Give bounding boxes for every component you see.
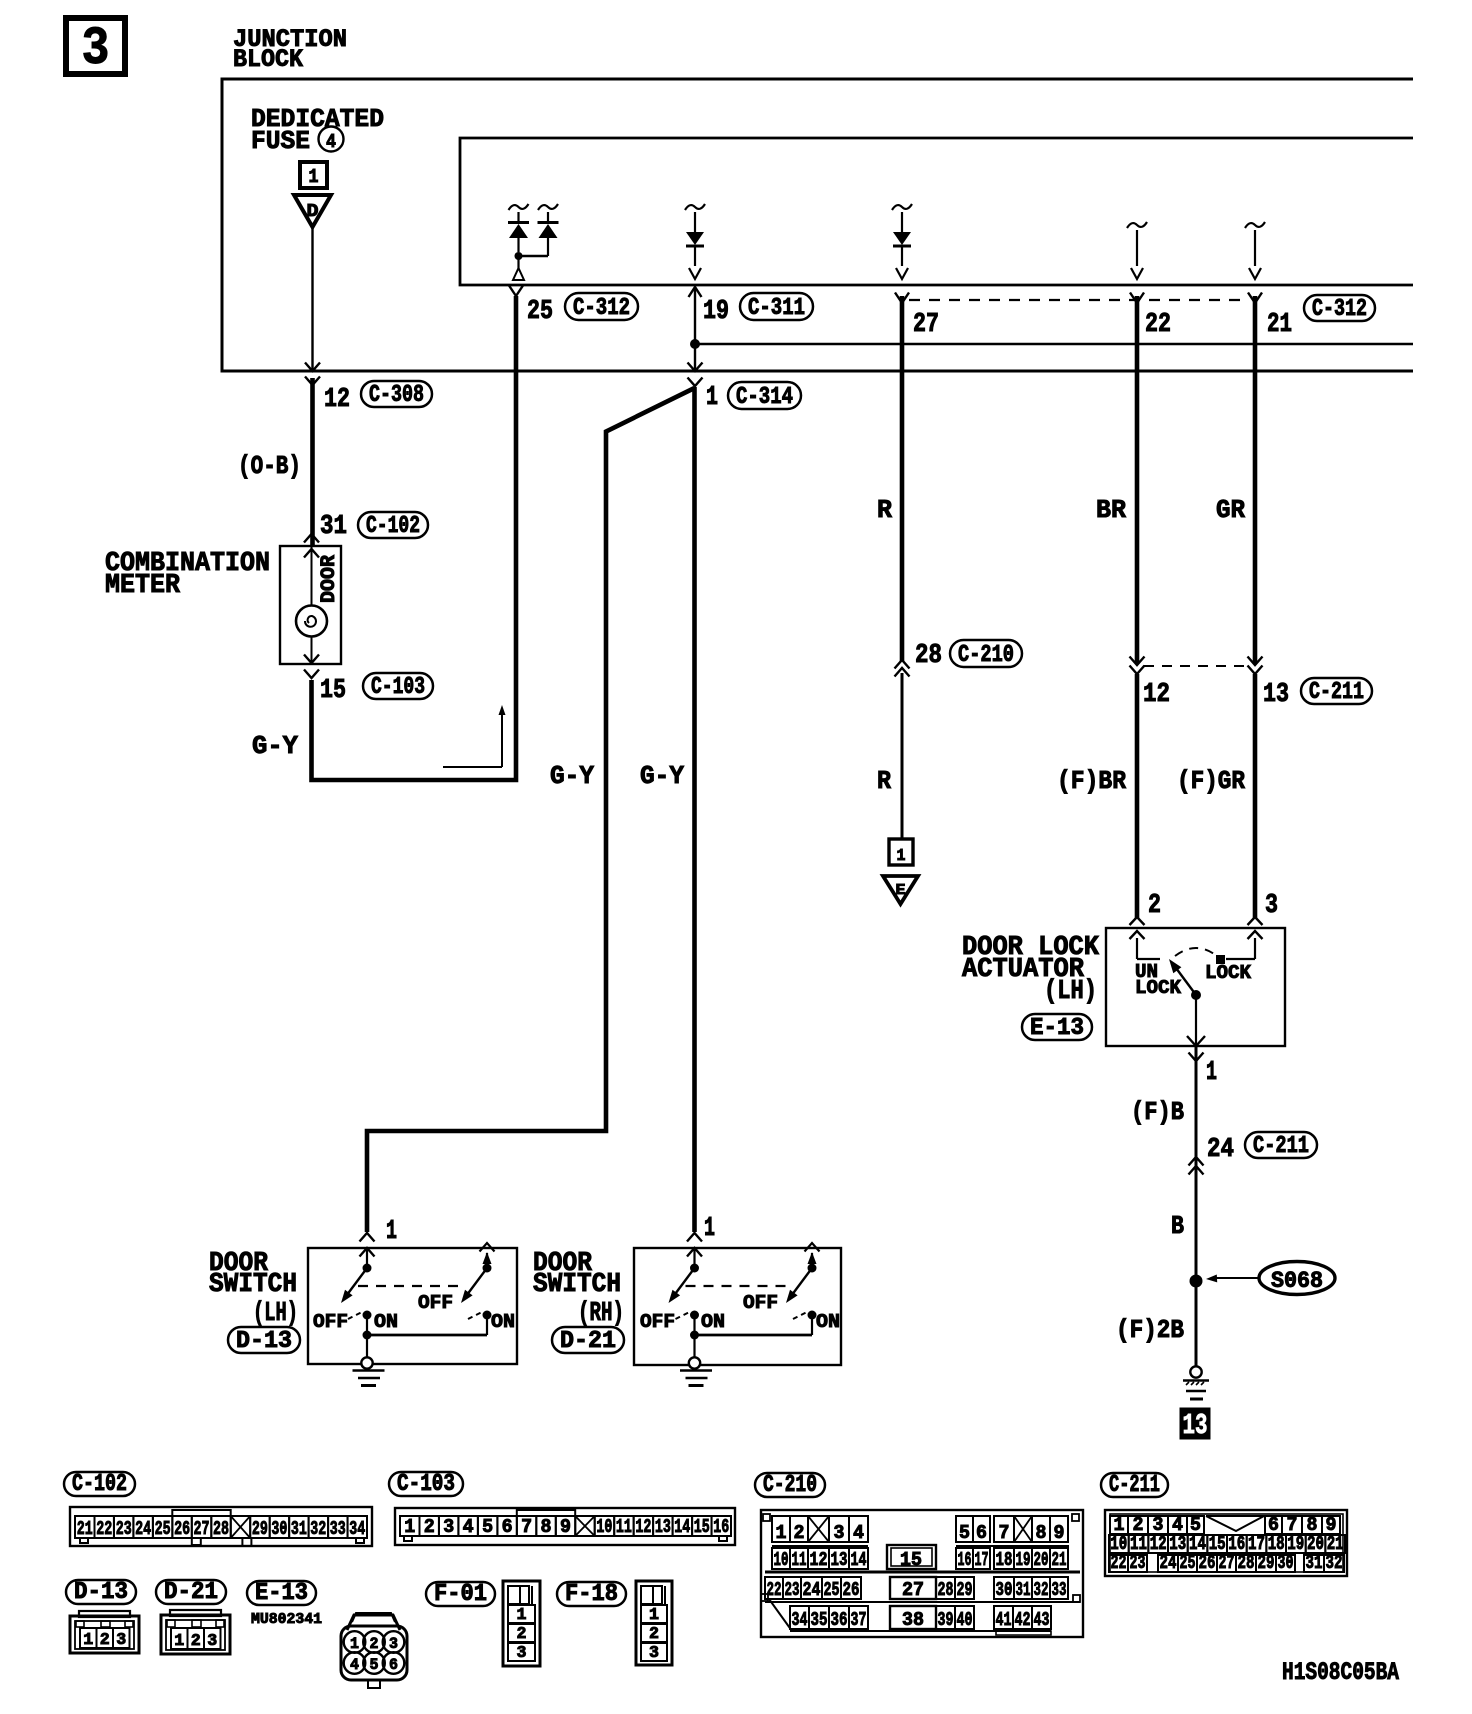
svg-text:2: 2: [191, 1632, 201, 1651]
svg-text:25: 25: [824, 1579, 840, 1601]
svg-text:16: 16: [713, 1516, 729, 1538]
svg-text:F-18: F-18: [565, 1581, 618, 1608]
svg-text:43: 43: [1034, 1609, 1050, 1631]
door switch LH pin 1 crossing chevrons: [360, 1233, 375, 1242]
svg-text:5: 5: [370, 1656, 379, 1674]
dashed link 12-13: [1144, 665, 1248, 667]
connector label C-211: [1101, 1473, 1168, 1497]
svg-text:G-Y: G-Y: [550, 761, 594, 791]
svg-text:E: E: [896, 882, 906, 899]
svg-text:H1S08C05BA: H1S08C05BA: [1282, 1658, 1399, 1687]
door switch RH pin 1 crossing chevrons: [687, 1233, 702, 1242]
svg-text:13: 13: [1183, 1409, 1208, 1442]
svg-text:32: 32: [310, 1518, 326, 1540]
combination meter box: [280, 546, 341, 664]
svg-text:28: 28: [1238, 1552, 1255, 1574]
svg-text:ON: ON: [374, 1311, 398, 1333]
connector label C-308: [361, 381, 432, 407]
svg-text:12: 12: [1143, 680, 1170, 710]
wire fuse to pin 12: [311, 227, 313, 371]
svg-text:3: 3: [389, 1635, 398, 1653]
svg-text:42: 42: [1015, 1609, 1031, 1631]
page number box 3: [66, 18, 125, 74]
svg-text:1: 1: [706, 383, 718, 413]
svg-text:10: 10: [774, 1549, 789, 1571]
svg-text:1: 1: [350, 1635, 359, 1653]
svg-text:25: 25: [527, 297, 553, 327]
svg-text:R: R: [877, 766, 891, 796]
svg-text:11: 11: [792, 1549, 807, 1571]
svg-text:MU802341: MU802341: [251, 1611, 322, 1628]
pin 27 fork: [895, 293, 909, 304]
svg-text:5: 5: [482, 1516, 493, 1538]
svg-text:13: 13: [1263, 680, 1289, 710]
svg-text:18: 18: [996, 1549, 1013, 1571]
svg-text:ON: ON: [816, 1311, 840, 1333]
svg-text:3: 3: [443, 1516, 454, 1538]
svg-text:36: 36: [831, 1609, 848, 1631]
svg-text:5: 5: [959, 1522, 970, 1544]
svg-text:1: 1: [517, 1606, 527, 1625]
svg-text:2: 2: [1148, 891, 1161, 921]
svg-text:41: 41: [996, 1609, 1012, 1631]
pin 24 crossing chevrons: [1189, 1157, 1204, 1166]
connector label C-102 at meter: [358, 512, 428, 538]
wire G-Y to door switch RH: [692, 387, 697, 1232]
svg-text:7: 7: [521, 1516, 532, 1538]
svg-text:C-211: C-211: [1253, 1133, 1309, 1160]
svg-text:21: 21: [77, 1518, 93, 1540]
svg-text:27: 27: [913, 310, 939, 340]
svg-text:19: 19: [703, 297, 729, 327]
diode D4: [892, 204, 912, 210]
svg-text:4: 4: [326, 131, 336, 153]
door lock actuator box: [1106, 928, 1285, 1046]
open arrow terminal of D4: [896, 268, 908, 279]
svg-text:3: 3: [834, 1522, 845, 1544]
svg-text:25: 25: [155, 1518, 171, 1540]
actuator switch lever: [1176, 968, 1196, 995]
connector C-211 pinout: [1105, 1510, 1347, 1576]
wire stub pin 21: [1245, 222, 1265, 228]
svg-text:28: 28: [213, 1518, 229, 1540]
svg-text:3: 3: [517, 1644, 527, 1663]
svg-text:31: 31: [1016, 1579, 1031, 1601]
connector label C-210 at wire R: [950, 640, 1022, 667]
svg-text:15: 15: [694, 1516, 710, 1538]
door switch LH contacts: [366, 1250, 368, 1268]
svg-text:METER: METER: [105, 571, 181, 601]
svg-text:33: 33: [1052, 1579, 1067, 1601]
connector label C-103: [389, 1472, 463, 1496]
svg-text:BLOCK: BLOCK: [233, 45, 303, 74]
svg-text:R: R: [877, 495, 892, 525]
svg-text:1: 1: [309, 166, 319, 188]
svg-text:1: 1: [83, 1631, 93, 1650]
svg-text:22: 22: [1111, 1552, 1127, 1574]
svg-text:D-13: D-13: [74, 1579, 128, 1606]
svg-text:33: 33: [330, 1518, 346, 1540]
svg-text:26: 26: [843, 1579, 860, 1601]
actuator output wire: [1195, 995, 1197, 1046]
circled 4: [319, 127, 344, 152]
junction block outline: [222, 79, 1413, 371]
wire from node to right edge: [695, 343, 1413, 345]
connector label D-21 at switch: [552, 1327, 624, 1353]
junction block inner dark box: [460, 138, 1413, 285]
svg-text:25: 25: [1180, 1552, 1196, 1574]
pin 15 crossing chevrons: [304, 655, 319, 664]
svg-text:31: 31: [1306, 1552, 1323, 1574]
door switch RH contacts: [693, 1250, 695, 1268]
fuse terminal box 1: [300, 162, 327, 188]
svg-text:32: 32: [1326, 1552, 1343, 1574]
wire G-Y from meter joining pin 25 wire: [312, 296, 517, 780]
pin 22 fork: [1130, 293, 1144, 304]
svg-text:LOCK: LOCK: [1205, 962, 1252, 984]
svg-text:8: 8: [1036, 1522, 1047, 1544]
svg-text:15: 15: [320, 676, 346, 706]
svg-text:SWITCH: SWITCH: [209, 1270, 297, 1300]
svg-text:OFF: OFF: [313, 1311, 348, 1333]
svg-text:D-21: D-21: [560, 1328, 616, 1355]
connector label C-210: [755, 1473, 825, 1497]
svg-text:3: 3: [116, 1631, 126, 1650]
diode D2 (right of pair): [538, 204, 558, 210]
connector D-21 pinout: [161, 1615, 230, 1654]
svg-text:2: 2: [649, 1625, 659, 1644]
svg-text:30: 30: [1278, 1552, 1294, 1574]
svg-text:4: 4: [350, 1656, 359, 1674]
svg-text:D-13: D-13: [236, 1328, 292, 1355]
svg-text:C-312: C-312: [1312, 296, 1367, 323]
wire BR upper: [1135, 296, 1140, 664]
flow arrow symbol: [443, 766, 502, 768]
svg-text:27: 27: [902, 1579, 924, 1601]
svg-text:OFF: OFF: [743, 1292, 778, 1314]
svg-text:4: 4: [463, 1516, 474, 1538]
meter internal wire top: [311, 546, 313, 606]
connector C-210 pinout: [761, 1510, 1083, 1637]
svg-text:OFF: OFF: [640, 1311, 675, 1333]
splice node dot: [1190, 1275, 1203, 1288]
svg-text:11: 11: [616, 1516, 632, 1538]
pin 13 C-211 crossing chevrons: [1248, 657, 1263, 666]
svg-text:1: 1: [776, 1522, 787, 1544]
ground symbol E triangle: [883, 876, 918, 904]
wire (F)B: [1195, 1046, 1198, 1366]
svg-text:14: 14: [851, 1549, 867, 1571]
svg-text:23: 23: [1130, 1552, 1146, 1574]
svg-text:6: 6: [389, 1656, 398, 1674]
svg-text:E-13: E-13: [1030, 1015, 1084, 1042]
pin 12 crossing chevrons: [305, 363, 320, 372]
svg-text:3: 3: [649, 1644, 659, 1663]
svg-text:12: 12: [810, 1549, 828, 1571]
node junction dot on pin19 wire: [690, 339, 700, 349]
splice label S068: [1259, 1262, 1335, 1295]
svg-text:C-314: C-314: [736, 384, 793, 411]
svg-text:ON: ON: [701, 1311, 725, 1333]
diode D3: [685, 204, 705, 210]
svg-text:F-01: F-01: [434, 1581, 487, 1608]
svg-text:22: 22: [1145, 310, 1171, 340]
actuator dashed arc: [1175, 948, 1217, 956]
ground symbol lower right: [1190, 1366, 1201, 1377]
actuator pin 1 crossing chevrons: [1187, 1036, 1205, 1046]
svg-text:40: 40: [957, 1609, 973, 1631]
door switch LH box: [308, 1248, 517, 1364]
connector C-103 pinout: [395, 1508, 735, 1545]
svg-text:LOCK: LOCK: [1135, 977, 1182, 999]
connector F-01 pinout: [503, 1581, 540, 1666]
svg-text:27: 27: [194, 1518, 210, 1540]
svg-text:C-312: C-312: [573, 295, 630, 322]
svg-text:20: 20: [1034, 1549, 1049, 1571]
svg-text:(RH): (RH): [578, 1299, 624, 1329]
svg-text:28: 28: [915, 641, 942, 671]
pin 25 fork: [509, 286, 523, 297]
svg-text:26: 26: [174, 1518, 190, 1540]
pin 31 crossing chevrons: [304, 534, 319, 543]
wire R upper: [900, 296, 905, 661]
svg-text:23: 23: [116, 1518, 132, 1540]
svg-text:FUSE: FUSE: [251, 126, 310, 156]
actuator pin 2 crossing chevrons: [1130, 917, 1145, 925]
diode D1 (left pair): [509, 204, 529, 210]
actuator unlock contact: [1136, 938, 1138, 959]
svg-text:2: 2: [100, 1631, 110, 1650]
open triangle terminal of diode pair: [513, 268, 524, 280]
svg-text:1: 1: [1206, 1058, 1217, 1088]
connector label D-21: [156, 1580, 226, 1604]
svg-text:7: 7: [999, 1522, 1010, 1544]
svg-text:26: 26: [1199, 1552, 1216, 1574]
connector label C-314: [728, 382, 801, 409]
wire stub pin 22: [1127, 222, 1147, 228]
svg-text:1: 1: [174, 1632, 184, 1651]
open arrow terminal of D3: [689, 268, 701, 279]
svg-text:10: 10: [596, 1516, 612, 1538]
pin 19 arrow: [689, 287, 702, 297]
svg-text:1: 1: [386, 1217, 397, 1247]
open arrow terminal pin 22 stub: [1131, 268, 1143, 279]
svg-text:C-211: C-211: [1309, 679, 1364, 706]
svg-text:31: 31: [291, 1518, 307, 1540]
svg-text:24: 24: [1207, 1135, 1234, 1165]
svg-text:C-103: C-103: [371, 674, 425, 701]
svg-text:(F)GR: (F)GR: [1177, 766, 1245, 796]
svg-text:29: 29: [252, 1518, 268, 1540]
svg-text:C-211: C-211: [1109, 1472, 1160, 1499]
actuator pin 3 crossing chevrons: [1248, 917, 1263, 925]
svg-text:16: 16: [958, 1549, 972, 1571]
svg-text:OFF: OFF: [418, 1292, 453, 1314]
pin 1 C-314 crossing chevrons: [688, 363, 703, 372]
svg-text:30: 30: [271, 1518, 287, 1540]
svg-text:B: B: [1171, 1211, 1184, 1241]
wire (F)GR: [1253, 674, 1258, 918]
dashed link pins 27-22-21: [909, 299, 1248, 301]
svg-text:21: 21: [1052, 1549, 1067, 1571]
svg-text:2: 2: [517, 1625, 527, 1644]
svg-text:G-Y: G-Y: [252, 731, 298, 761]
svg-text:E-13: E-13: [255, 1580, 308, 1607]
svg-text:(F)2B: (F)2B: [1116, 1315, 1184, 1345]
svg-text:32: 32: [1034, 1579, 1049, 1601]
svg-text:31: 31: [320, 512, 347, 542]
svg-text:1: 1: [897, 847, 906, 866]
svg-text:35: 35: [811, 1609, 828, 1631]
door lamp: [296, 606, 327, 637]
connector label D-13 at switch: [228, 1327, 300, 1353]
svg-text:24: 24: [1160, 1552, 1177, 1574]
svg-text:13: 13: [831, 1549, 848, 1571]
svg-text:D: D: [307, 202, 319, 222]
svg-text:38: 38: [902, 1609, 924, 1631]
connector F-18 pinout: [636, 1581, 672, 1665]
svg-text:C-308: C-308: [369, 382, 424, 409]
connector label C-103 at meter: [363, 673, 433, 699]
svg-text:2: 2: [424, 1516, 435, 1538]
ground terminal box 1: [889, 839, 913, 865]
pin 12 C-211 crossing chevrons: [1130, 657, 1145, 666]
svg-text:34: 34: [349, 1518, 365, 1540]
fuse symbol D triangle: [294, 195, 331, 227]
svg-text:27: 27: [1219, 1552, 1235, 1574]
svg-text:9: 9: [1054, 1522, 1065, 1544]
wire (F)BR: [1135, 674, 1140, 918]
meter internal wire bottom: [311, 637, 313, 665]
connector label F-18: [557, 1582, 626, 1606]
svg-text:8: 8: [541, 1516, 552, 1538]
svg-text:1: 1: [404, 1516, 415, 1538]
svg-text:39: 39: [938, 1609, 954, 1631]
svg-text:S068: S068: [1271, 1268, 1323, 1294]
svg-text:14: 14: [674, 1516, 690, 1538]
svg-text:1: 1: [649, 1606, 659, 1625]
connector label C-211 at wire B: [1245, 1132, 1317, 1158]
ground reference box 13: [1180, 1408, 1210, 1439]
svg-text:13: 13: [655, 1516, 671, 1538]
svg-text:22: 22: [96, 1518, 112, 1540]
svg-text:6: 6: [502, 1516, 513, 1538]
junction dot of diode pair: [515, 252, 523, 260]
svg-text:(F)BR: (F)BR: [1057, 766, 1126, 796]
connector label F-01: [426, 1582, 495, 1606]
svg-text:ON: ON: [491, 1311, 515, 1333]
svg-text:C-102: C-102: [366, 513, 420, 540]
svg-text:17: 17: [975, 1549, 989, 1571]
svg-text:BR: BR: [1096, 495, 1126, 525]
svg-text:12: 12: [324, 385, 350, 415]
svg-text:21: 21: [1267, 310, 1292, 340]
svg-text:9: 9: [560, 1516, 571, 1538]
svg-text:(LH): (LH): [1044, 977, 1097, 1007]
connector E-13 pinout: [347, 1615, 400, 1630]
svg-text:C-103: C-103: [397, 1471, 455, 1498]
wire GR upper: [1253, 296, 1258, 664]
connector label C-312 at pin 21: [1304, 295, 1375, 321]
connector C-102 pinout: [70, 1507, 372, 1546]
svg-text:28: 28: [938, 1579, 954, 1601]
wire G-Y to door switch LH: [367, 388, 695, 1232]
svg-text:6: 6: [976, 1522, 987, 1544]
svg-text:3: 3: [207, 1632, 217, 1651]
connector label C-102: [64, 1472, 135, 1496]
svg-text:2: 2: [794, 1522, 805, 1544]
svg-text:4: 4: [853, 1522, 864, 1544]
svg-text:1: 1: [704, 1214, 715, 1244]
svg-text:12: 12: [635, 1516, 651, 1538]
wire (O-B) fuse output: [310, 378, 315, 547]
connector label C-311: [740, 293, 813, 320]
open arrow terminal pin 21 stub: [1249, 268, 1261, 279]
svg-text:34: 34: [792, 1609, 808, 1631]
svg-text:23: 23: [785, 1579, 800, 1601]
svg-text:24: 24: [803, 1579, 821, 1601]
svg-text:2: 2: [370, 1635, 379, 1653]
door switch RH box: [634, 1248, 841, 1365]
svg-text:C-311: C-311: [748, 295, 805, 322]
connector label C-312 at pin 25: [565, 293, 638, 320]
wire R lower: [901, 673, 904, 839]
svg-text:G-Y: G-Y: [640, 761, 684, 791]
svg-text:30: 30: [996, 1579, 1013, 1601]
svg-text:3: 3: [1265, 891, 1278, 921]
svg-text:C-210: C-210: [763, 1472, 817, 1499]
svg-text:GR: GR: [1216, 495, 1245, 525]
connector label C-211 at wire GR: [1301, 678, 1372, 704]
connector label D-13: [66, 1580, 136, 1604]
svg-text:(O-B): (O-B): [238, 451, 301, 481]
pin 21 fork: [1248, 293, 1262, 304]
svg-text:19: 19: [1016, 1549, 1031, 1571]
svg-text:SWITCH: SWITCH: [533, 1270, 621, 1300]
connector label E-13: [247, 1581, 316, 1605]
svg-text:37: 37: [851, 1609, 867, 1631]
svg-text:(LH): (LH): [253, 1299, 298, 1329]
svg-text:C-102: C-102: [72, 1471, 127, 1498]
actuator lock contact: [1254, 938, 1256, 959]
svg-text:C-210: C-210: [958, 642, 1014, 669]
svg-text:(F)B: (F)B: [1131, 1097, 1184, 1127]
splice arrow: [1213, 1277, 1258, 1279]
svg-text:24: 24: [135, 1518, 151, 1540]
svg-text:29: 29: [957, 1579, 973, 1601]
connector D-13 pinout: [70, 1616, 139, 1653]
pin 28 crossing chevrons: [895, 660, 910, 669]
svg-text:29: 29: [1258, 1552, 1275, 1574]
svg-text:D-21: D-21: [164, 1579, 218, 1606]
svg-text:3: 3: [82, 19, 110, 80]
svg-text:15: 15: [900, 1549, 922, 1571]
connector label E-13 at actuator: [1022, 1014, 1092, 1040]
svg-text:DOOR: DOOR: [318, 555, 341, 603]
